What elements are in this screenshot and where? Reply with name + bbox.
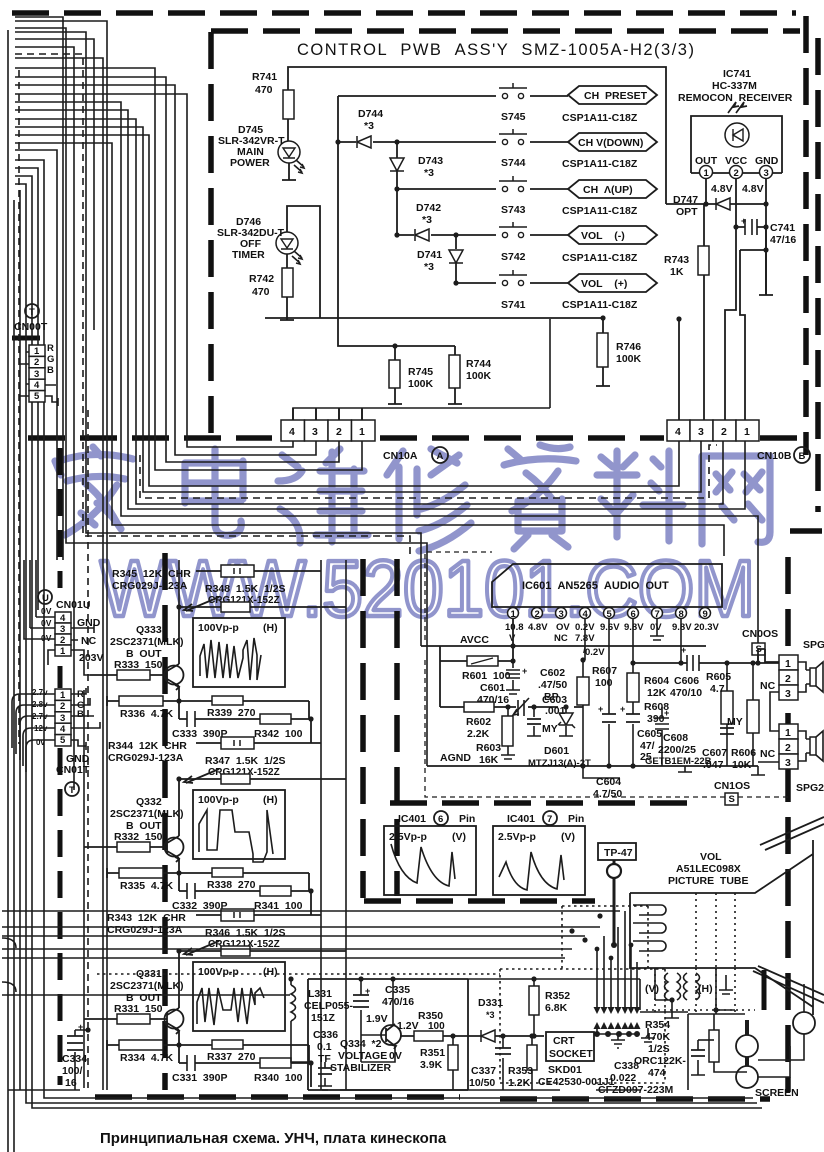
svg-text:.047: .047 <box>703 759 724 771</box>
svg-text:47/16: 47/16 <box>770 234 796 246</box>
diode D741 on vertical <box>455 235 457 249</box>
svg-text:Принципиальная схема. УНЧ, пла: Принципиальная схема. УНЧ, плата кинеско… <box>100 1130 447 1147</box>
svg-text:A51LEC098X: A51LEC098X <box>676 863 741 875</box>
picture tube outline <box>630 840 813 1015</box>
wire main row <box>400 1035 544 1037</box>
svg-text:470/16: 470/16 <box>382 996 414 1008</box>
svg-text:5: 5 <box>34 391 40 402</box>
svg-text:CRT: CRT <box>553 1035 575 1047</box>
TP-47 <box>598 843 636 860</box>
bottom internal rail <box>293 408 362 420</box>
svg-text:R351: R351 <box>420 1047 445 1059</box>
svg-text:SPG: SPG <box>803 639 824 651</box>
resistor R341 <box>260 886 291 896</box>
dotted grid lines in tube <box>696 893 735 968</box>
wire R741 to LED <box>287 119 289 141</box>
svg-text:2200/25: 2200/25 <box>658 744 696 756</box>
svg-text:Q332: Q332 <box>136 796 162 808</box>
capacitor C605 <box>632 724 634 766</box>
svg-text:MY: MY <box>727 716 743 728</box>
waveform box 100Vp-p (H) <box>193 962 285 1031</box>
transistor Q332 <box>165 836 184 862</box>
svg-text:+: + <box>741 216 746 226</box>
svg-text:100Vp-p: 100Vp-p <box>198 794 239 806</box>
screen resistor <box>714 1014 747 1072</box>
resistor R335 <box>119 868 163 878</box>
connector CN01T <box>55 689 71 746</box>
resistor R336 <box>119 696 163 706</box>
svg-text:1: 1 <box>60 690 66 701</box>
dotted line left of socket box <box>97 973 500 975</box>
CN01U pin wires <box>24 560 90 675</box>
svg-text:B: B <box>77 709 84 720</box>
heater hooks <box>633 905 666 951</box>
svg-text:TP-47: TP-47 <box>604 847 633 859</box>
svg-text:0V: 0V <box>650 622 662 633</box>
waveform box 100Vp-p (H) <box>193 790 285 859</box>
svg-text:AGND: AGND <box>440 752 471 764</box>
svg-text:VOL (-): VOL (-) <box>581 230 625 242</box>
svg-text:CN10A: CN10A <box>383 450 418 462</box>
capacitor C606 <box>687 655 699 671</box>
svg-text:(H): (H) <box>263 794 278 806</box>
svg-text:S: S <box>729 794 735 805</box>
svg-text:Pin: Pin <box>459 813 475 825</box>
svg-text:R605: R605 <box>706 671 731 683</box>
svg-text:R744: R744 <box>466 358 491 370</box>
svg-text:2: 2 <box>34 357 39 368</box>
row wire C331 R340 <box>179 1063 311 1087</box>
svg-text:S744: S744 <box>501 157 526 169</box>
collector/emitter wires <box>178 607 180 719</box>
svg-text:203V: 203V <box>79 652 104 664</box>
screen cap <box>691 1040 705 1075</box>
svg-text:R342 100: R342 100 <box>254 728 303 740</box>
collector/emitter wires <box>178 779 180 891</box>
svg-text:0V: 0V <box>41 606 52 616</box>
wire LED D745 to ground bar <box>282 163 296 180</box>
outer top dashed border <box>12 10 796 16</box>
svg-text:R606: R606 <box>731 747 756 759</box>
svg-text:7: 7 <box>655 609 660 620</box>
resistor R337 <box>212 1040 243 1049</box>
pin wires down <box>706 178 766 295</box>
AGND rail <box>427 765 758 767</box>
svg-text:4: 4 <box>34 380 40 391</box>
svg-text:C602: C602 <box>540 667 565 679</box>
wires below tube <box>655 968 735 1010</box>
CN00T pin4 pin5 wires <box>45 385 58 406</box>
screen circles <box>736 1035 758 1057</box>
svg-text:MTZJ13(A)-2T: MTZJ13(A)-2T <box>528 758 591 769</box>
svg-text:*3: *3 <box>364 120 374 132</box>
resistor R352 <box>533 979 535 986</box>
svg-text:3.9K: 3.9K <box>420 1059 443 1071</box>
svg-text:IC401: IC401 <box>398 813 426 825</box>
svg-text:C337: C337 <box>471 1065 496 1077</box>
svg-text:S743: S743 <box>501 204 526 216</box>
hexagon CH V(DOWN) <box>568 133 657 151</box>
svg-text:1.9V: 1.9V <box>366 1013 388 1025</box>
svg-text:R346 1.5K 1/2S: R346 1.5K 1/2S <box>205 927 286 939</box>
switch matrix left rail <box>337 96 339 318</box>
CN10A pin up wires <box>293 319 550 420</box>
capacitor C335 <box>360 979 362 1035</box>
svg-text:CN1OS: CN1OS <box>714 780 750 792</box>
svg-text:100K: 100K <box>616 353 642 365</box>
speaker connector SPG2 <box>779 724 823 769</box>
svg-text:4: 4 <box>675 426 681 438</box>
svg-text:R347 1.5K 1/2S: R347 1.5K 1/2S <box>205 755 286 767</box>
svg-text:Q333: Q333 <box>136 624 162 636</box>
heavy dashed below audio <box>390 800 700 806</box>
resistor R603 <box>501 707 515 759</box>
vertical drops to socket arrows <box>597 911 637 1008</box>
svg-text:2: 2 <box>721 426 727 438</box>
diode D331 <box>481 1030 495 1042</box>
R602 row wire <box>440 661 583 707</box>
svg-text:2: 2 <box>60 635 65 646</box>
svg-text:3: 3 <box>698 426 704 438</box>
IC601 pins 1-9 <box>508 608 711 621</box>
hexagon CH UP <box>568 180 657 198</box>
svg-text:Pin: Pin <box>568 813 584 825</box>
svg-text:1.2K: 1.2K <box>508 1077 531 1089</box>
svg-text:C607: C607 <box>702 747 727 759</box>
svg-text:.001: .001 <box>545 705 566 717</box>
svg-text:R334 4.7K: R334 4.7K <box>120 1052 174 1064</box>
CRT socket dotted box lower <box>500 969 665 1083</box>
transistor Q333 <box>165 664 184 690</box>
svg-text:D742: D742 <box>416 202 441 214</box>
svg-text:6: 6 <box>438 814 443 825</box>
socket pins bottom dots <box>594 1031 600 1037</box>
mid heavy dashed vertical 1 <box>360 559 366 898</box>
svg-text:B: B <box>47 365 54 376</box>
switch S742 <box>499 222 527 238</box>
svg-text:6: 6 <box>631 609 636 620</box>
svg-text:+: + <box>78 1022 83 1032</box>
svg-text:9.6V: 9.6V <box>600 622 620 633</box>
switch S744 <box>499 129 527 145</box>
resistor R343 (II box) <box>196 914 321 916</box>
svg-text:0V: 0V <box>41 633 52 643</box>
left edge vertical wires to CN00T <box>8 30 44 1090</box>
CN01U GND NC 203V labels <box>71 624 94 640</box>
svg-text:R344 12K CHR: R344 12K CHR <box>108 740 187 752</box>
svg-text:10K: 10K <box>732 759 752 771</box>
svg-text:CH Λ(UP): CH Λ(UP) <box>583 184 633 196</box>
svg-text:+: + <box>598 704 603 714</box>
wire H to R354 area <box>640 1010 745 1090</box>
svg-text:AVCC: AVCC <box>460 634 489 646</box>
svg-text:IC601 AN5265 AUDIO OUT: IC601 AN5265 AUDIO OUT <box>522 580 669 592</box>
svg-text:CELP055-: CELP055- <box>304 1000 354 1012</box>
switch S745 <box>499 83 527 99</box>
svg-text:1: 1 <box>60 646 66 657</box>
capacitor C607 MY <box>720 728 734 734</box>
capacitor C603 MY <box>527 707 541 736</box>
outer right dashed border <box>803 16 809 455</box>
dotted vertical extensions <box>646 968 755 1012</box>
LED D745 <box>278 141 304 173</box>
receiver LED symbol <box>725 123 749 147</box>
svg-text:(V): (V) <box>561 831 575 843</box>
svg-text:CRG029J-123A: CRG029J-123A <box>107 924 183 936</box>
top rail to R352 and CRT <box>175 979 640 1010</box>
svg-text:R604: R604 <box>644 675 669 687</box>
svg-text:ORC122K-: ORC122K- <box>634 1055 686 1067</box>
svg-text:T: T <box>29 307 35 318</box>
CRT socket dotted box upper <box>562 906 648 969</box>
resistor R745 <box>394 346 396 398</box>
pin circles 1 2 3 <box>700 166 713 179</box>
svg-text:CN01U: CN01U <box>56 599 90 611</box>
svg-text:VOLTAGE: VOLTAGE <box>338 1050 387 1062</box>
svg-text:2: 2 <box>60 701 65 712</box>
connector CN10A <box>281 420 375 441</box>
wire LED D746 to R742 <box>286 254 288 268</box>
node <box>335 139 340 144</box>
hexagon CH PRESET <box>568 86 657 104</box>
svg-text:R336 4.7K: R336 4.7K <box>120 708 174 720</box>
left inner dashed border x60 <box>58 448 63 1085</box>
svg-text:CH PRESET: CH PRESET <box>584 90 648 102</box>
svg-text:(H): (H) <box>263 622 278 634</box>
inductor L331 <box>291 979 308 1062</box>
heavy bar right <box>762 970 767 1010</box>
svg-text:R338 270: R338 270 <box>207 879 256 891</box>
svg-text:R745: R745 <box>408 366 433 378</box>
resistor R340 <box>260 1058 291 1068</box>
CN01T pin right wires <box>71 688 100 750</box>
svg-text:2: 2 <box>734 168 739 179</box>
dashed band wire to CN10B <box>140 445 717 498</box>
transistor Q331 <box>165 1008 184 1034</box>
capacitor C741 <box>736 226 766 228</box>
control box left dashed edge <box>208 32 214 437</box>
svg-text:2: 2 <box>535 609 540 620</box>
svg-text:3: 3 <box>60 713 65 724</box>
resistor R339 <box>212 696 243 705</box>
amp section left dashed edge <box>162 553 168 1090</box>
svg-text:C335: C335 <box>385 984 410 996</box>
node U circle <box>38 590 52 604</box>
svg-text:GND: GND <box>77 617 101 629</box>
svg-text:PICTURE TUBE: PICTURE TUBE <box>668 875 749 887</box>
ground right <box>678 766 765 775</box>
svg-text:R348 1.5K 1/2S: R348 1.5K 1/2S <box>205 583 286 595</box>
capacitor C332 <box>187 883 195 899</box>
audio right heavy dashed vertical <box>785 557 791 1092</box>
svg-text:CSP1A11-C18Z: CSP1A11-C18Z <box>562 205 638 217</box>
svg-text:TIMER: TIMER <box>232 249 265 261</box>
svg-text:B: B <box>799 451 806 462</box>
audio section thin dashed box <box>425 552 788 797</box>
node T circle lower <box>65 782 79 796</box>
row S742 wire <box>397 234 568 236</box>
short heavy bar above CN01T <box>58 666 63 688</box>
D747 OPT diode <box>666 203 766 205</box>
dashed wire in bundle <box>15 54 410 556</box>
wire D746 top elbow <box>287 206 320 318</box>
svg-text:2: 2 <box>336 426 342 438</box>
svg-text:R332 150: R332 150 <box>114 831 163 843</box>
connector CN01U <box>55 612 71 657</box>
svg-text:OV: OV <box>556 622 570 633</box>
svg-text:VOL: VOL <box>700 851 722 863</box>
svg-text:CN00T: CN00T <box>14 321 48 333</box>
switch S741 <box>499 270 527 286</box>
svg-text:4.7/50: 4.7/50 <box>593 788 622 800</box>
resistor R741 <box>283 90 294 119</box>
svg-text:G: G <box>47 354 54 365</box>
resistor R332 <box>84 846 167 848</box>
svg-text:C333 390P: C333 390P <box>172 728 227 740</box>
remocon receiver box U741 <box>691 116 782 173</box>
svg-text:D601: D601 <box>544 745 569 757</box>
collector/emitter wires <box>178 951 180 1063</box>
node T circle <box>25 304 39 318</box>
svg-text:4.8V: 4.8V <box>711 183 733 195</box>
svg-text:CONTROL PWB ASS'Y SMZ-1005A: CONTROL PWB ASS'Y SMZ-1005A-H2(3/3) <box>297 41 695 59</box>
svg-text:R335 4.7K: R335 4.7K <box>120 880 174 892</box>
capacitor C608 <box>661 707 663 766</box>
svg-text:C601: C601 <box>480 682 505 694</box>
svg-text:R603: R603 <box>476 742 501 754</box>
dashed wire vertical left <box>19 70 88 1088</box>
svg-text:+: + <box>522 666 527 676</box>
outer right dashed border second <box>790 38 822 531</box>
svg-text:D747: D747 <box>673 194 698 206</box>
CN00T pin stub wires <box>20 300 32 396</box>
svg-text:C336: C336 <box>313 1029 338 1041</box>
watermark char 7 <box>702 456 770 544</box>
bottom left corner wires <box>2 994 175 996</box>
svg-text:S745: S745 <box>501 111 526 123</box>
CRT SOCKET box <box>546 1032 594 1061</box>
svg-text:4: 4 <box>289 426 295 438</box>
row S745 wire <box>338 95 568 97</box>
svg-text:R746: R746 <box>616 341 641 353</box>
svg-text:470: 470 <box>252 286 270 298</box>
resistor R605 <box>726 663 728 766</box>
svg-text:NC: NC <box>760 748 776 760</box>
svg-text:474: 474 <box>648 1067 666 1079</box>
wires receiver to CN10B <box>679 227 745 420</box>
amp bus vertical wires <box>179 560 346 1090</box>
svg-text:SCREEN: SCREEN <box>755 1087 799 1099</box>
svg-text:2.7v: 2.7v <box>32 688 48 697</box>
svg-text:2SC2371(MLK): 2SC2371(MLK) <box>110 980 184 992</box>
resistor R351 <box>452 1036 454 1090</box>
svg-text:D743: D743 <box>418 155 443 167</box>
svg-text:100: 100 <box>595 677 613 689</box>
svg-text:3: 3 <box>60 624 65 635</box>
svg-text:IC401: IC401 <box>507 813 535 825</box>
bottom section box <box>308 979 468 1090</box>
svg-text:3: 3 <box>764 168 769 179</box>
row S744 wire <box>338 141 568 143</box>
LED D746 <box>276 232 302 264</box>
wires into CRT area <box>2 911 620 958</box>
svg-text:S741: S741 <box>501 299 526 311</box>
svg-text:C338: C338 <box>614 1060 639 1072</box>
resistor R604 vertical <box>632 619 634 714</box>
svg-text:SOCKET: SOCKET <box>549 1048 593 1060</box>
svg-text:+: + <box>365 986 370 996</box>
wire pin6 row <box>633 662 779 664</box>
svg-text:1: 1 <box>359 426 365 438</box>
watermark char 4 <box>387 449 471 551</box>
svg-text:CH V(DOWN): CH V(DOWN) <box>578 137 643 149</box>
svg-text:1K: 1K <box>670 266 684 278</box>
receiver LED arrows <box>728 102 747 113</box>
svg-text:100Vp-p: 100Vp-p <box>198 966 239 978</box>
svg-text:NC: NC <box>554 633 568 644</box>
svg-text:5: 5 <box>607 609 613 620</box>
wire GND down to ground <box>740 227 773 295</box>
wire bundle top-left elbows <box>15 17 63 560</box>
svg-text:4.8V: 4.8V <box>528 622 548 633</box>
resistor R346 <box>179 950 346 952</box>
svg-text:CSP1A11-C18Z: CSP1A11-C18Z <box>562 299 638 311</box>
coil V <box>665 973 681 1000</box>
svg-text:4.8V: 4.8V <box>742 183 764 195</box>
svg-text:9.8V: 9.8V <box>672 622 692 633</box>
svg-text:Q334 *2: Q334 *2 <box>340 1038 382 1050</box>
svg-text:1: 1 <box>744 426 750 438</box>
svg-text:R353: R353 <box>508 1065 533 1077</box>
diode D742 <box>415 229 429 241</box>
svg-text:12K: 12K <box>647 687 667 699</box>
mid heavy dashed vertical 2 <box>394 559 400 896</box>
svg-text:+: + <box>620 704 625 714</box>
svg-text:1: 1 <box>704 168 710 179</box>
svg-text:2: 2 <box>785 673 791 685</box>
svg-text:MY: MY <box>542 723 558 735</box>
svg-text:R601 100: R601 100 <box>462 670 511 682</box>
coil H <box>684 973 700 1000</box>
down arrows row <box>594 1007 641 1029</box>
row S741 wire <box>456 282 568 284</box>
diode D743 on vertical <box>396 142 398 158</box>
svg-text:470: 470 <box>255 84 273 96</box>
svg-text:151Z: 151Z <box>311 1012 336 1024</box>
svg-text:4: 4 <box>60 724 66 735</box>
diode D744 <box>357 136 371 148</box>
resistor R348 <box>179 606 346 608</box>
svg-text:NC: NC <box>760 680 776 692</box>
resistor R607 <box>583 618 585 766</box>
svg-text:470/10: 470/10 <box>670 687 702 699</box>
capacitor C602 <box>518 700 524 716</box>
watermark char 6 <box>597 451 683 541</box>
svg-text:*3: *3 <box>486 1010 495 1020</box>
svg-text:STABILIZER: STABILIZER <box>330 1062 391 1074</box>
pin8 wire <box>680 618 682 663</box>
svg-text:3: 3 <box>785 688 791 700</box>
svg-text:4.7: 4.7 <box>710 683 725 695</box>
svg-text:R343 12K CHR: R343 12K CHR <box>107 912 186 924</box>
svg-text:NC: NC <box>81 635 97 647</box>
svg-text:C331 390P: C331 390P <box>172 1072 227 1084</box>
svg-text:R345 12K CHR: R345 12K CHR <box>112 568 191 580</box>
capacitor C337 <box>502 1036 504 1090</box>
svg-text:3: 3 <box>785 757 791 769</box>
svg-text:2SC2371(MLK): 2SC2371(MLK) <box>110 808 184 820</box>
svg-text:CSP1A11-C18Z: CSP1A11-C18Z <box>562 158 638 170</box>
